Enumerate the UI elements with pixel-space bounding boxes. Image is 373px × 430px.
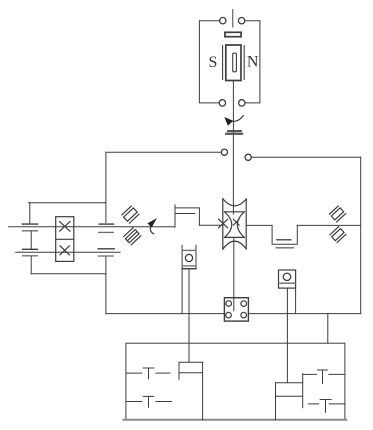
bearing bar left below shaft1: [22, 230, 37, 232]
housing right edge: [360, 157, 362, 313]
cup right left wall: [275, 383, 277, 420]
pump left pipe: [188, 269, 190, 362]
bearing bar box-edge below shaft2: [98, 255, 113, 257]
bearing bar box-edge above shaft1: [99, 223, 113, 225]
housing top-right wire: [251, 156, 360, 158]
coupling bar upper: [228, 130, 241, 132]
converter cross center: [233, 219, 239, 225]
housing top-left wire: [106, 151, 221, 153]
bearing bar box-edge below shaft1: [99, 231, 114, 233]
bearing bar left above shaft1: [22, 223, 37, 225]
svg-text:N: N: [247, 54, 259, 71]
level mark T left-2: [126, 401, 142, 403]
bearing bar left below shaft2: [23, 255, 37, 257]
motor stator left pole line: [222, 46, 224, 80]
torque converter right shell: [245, 199, 247, 249]
friction pad upper-right: [329, 206, 345, 222]
gearbox left support middle: [30, 232, 32, 249]
cup left top bar: [179, 361, 203, 363]
motor stator right pole line: [243, 46, 245, 80]
gearbox bottom wire: [31, 273, 106, 275]
armature bar: [225, 32, 241, 36]
flange plate: [224, 298, 248, 321]
converter rotor top edge: [225, 211, 245, 213]
friction pad lower-left: [123, 228, 140, 245]
cup left mid bar: [179, 372, 203, 374]
terminal circle bottom-right: [239, 100, 245, 106]
clutch lower bar: [176, 213, 195, 215]
clutch left vertical: [174, 205, 176, 228]
rotation arrow shaft1: [150, 227, 153, 234]
gear block divider: [56, 238, 74, 240]
housing left edge upper: [105, 152, 107, 222]
cup right top bar: [276, 382, 303, 384]
shaft clutch to converter: [199, 224, 222, 226]
gearbox top wire: [29, 202, 106, 204]
switch blade: [232, 10, 234, 27]
coupling under bar: [276, 247, 293, 249]
terminal circle housing top-left: [221, 149, 227, 155]
pump right drain to housing: [295, 288, 297, 314]
clutch right vertical: [198, 208, 200, 225]
bearing bar left above shaft2: [23, 248, 38, 250]
flange bolt circles: [226, 301, 232, 307]
level mark T right-2: [308, 403, 318, 405]
pump right pipe: [286, 288, 288, 383]
motor slot: [233, 53, 237, 72]
converter cross left: [219, 219, 228, 228]
pump left body: [181, 245, 183, 269]
clutch upper bar: [176, 207, 200, 209]
pump left circle: [185, 254, 192, 261]
motor body: [226, 45, 241, 81]
gear cross lower: [60, 246, 69, 255]
output shaft vertical: [233, 237, 235, 310]
tank bottom thick: [124, 419, 347, 421]
pump left drain to housing: [181, 269, 183, 314]
level mark T right-1: [303, 373, 317, 375]
gearbox left support lower: [30, 257, 32, 274]
svg-text:S: S: [208, 54, 217, 71]
torque converter bottom arc: [223, 241, 246, 249]
wire top-left: [199, 21, 219, 103]
shaft 1: [9, 226, 175, 228]
converter rotor right arc: [237, 212, 244, 238]
coupling inner bar: [277, 239, 291, 241]
gear cross upper: [60, 222, 70, 232]
gearbox left support upper: [29, 203, 31, 224]
coupling bar lower: [226, 133, 242, 135]
cup right right wall: [302, 374, 304, 408]
wire top-right: [245, 21, 260, 103]
converter rotor left arc: [225, 212, 232, 238]
terminal circle housing top-right: [245, 154, 251, 160]
shaft right: [297, 224, 360, 226]
torque converter top arc: [223, 199, 246, 206]
terminal circle bottom-left: [219, 100, 225, 106]
cup right mid bar: [276, 395, 303, 397]
shaft 2: [16, 251, 120, 253]
sliding coupling U: [272, 225, 297, 244]
drain stub right: [327, 314, 329, 344]
rotation arrow top: [233, 116, 244, 122]
switch contact left: [220, 18, 226, 24]
shaft converter to coupling right: [246, 224, 272, 226]
housing left edge lower: [105, 257, 107, 314]
pump right body: [279, 270, 296, 288]
torque converter left shell: [222, 199, 224, 249]
gear block frame: [56, 217, 74, 262]
housing bottom edge: [106, 313, 361, 315]
level mark T left-1: [126, 372, 142, 374]
switch contact right: [238, 18, 244, 24]
cup left right wall: [202, 362, 204, 420]
motor shaft vertical: [232, 81, 234, 214]
pump right circle: [283, 273, 290, 280]
tank: [126, 343, 345, 420]
cup left wall: [178, 362, 180, 379]
bearing bar box-edge above shaft2: [98, 248, 114, 250]
friction pad upper-left: [122, 206, 139, 223]
converter rotor bottom edge: [225, 236, 245, 238]
friction pad lower-right: [330, 227, 346, 243]
